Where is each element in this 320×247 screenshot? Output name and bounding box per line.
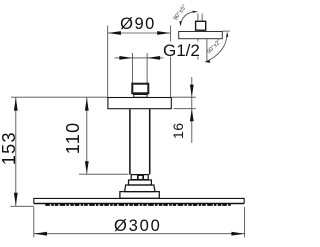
detail: flange plate — [179, 32, 223, 39]
dim 153 top arrow — [14, 98, 18, 111]
shower arm pipe — [129, 109, 131, 174]
dim Ø300 right arrow — [231, 232, 244, 236]
supply pipe stub lines — [131, 53, 133, 84]
detail: connection nut — [196, 21, 206, 30]
dim 16 vertical line — [191, 77, 193, 143]
dim G1/2 right arrow — [147, 56, 160, 60]
nut neck — [134, 95, 147, 98]
hex nut middle facet — [138, 175, 143, 179]
detail: flange top extension line — [222, 30, 229, 32]
shower head plate — [34, 198, 244, 203]
connection nut — [132, 84, 148, 94]
dim Ø300 right extension line — [244, 207, 246, 238]
ceiling line left segment — [11, 96, 108, 98]
detail: arc 90±5 lower arrowhead — [179, 21, 181, 26]
detail: arc 90±5 right arrowhead — [193, 11, 199, 13]
shower head plate bottom edge — [34, 203, 244, 205]
dim Ø90 left arrow — [108, 31, 121, 35]
dim 153 line — [15, 98, 17, 206]
cone section — [125, 185, 155, 192]
flange bottom extension line — [174, 108, 196, 110]
dim Ø90 line — [108, 32, 171, 34]
dim 110 line — [86, 98, 88, 174]
dim 16 lower arrow — [190, 109, 194, 122]
detail: pipe below flange — [197, 39, 199, 60]
svg-text:16: 16 — [170, 122, 186, 139]
ceiling line right segment — [172, 96, 196, 98]
dim Ø90 right extension line — [170, 26, 172, 98]
dim G1/2 left arrow — [119, 56, 132, 60]
detail: angle arc 90±2 — [206, 34, 228, 62]
detail: angle arc 90±5 — [180, 12, 193, 26]
dim 16 upper arrow — [190, 85, 194, 98]
svg-text:110: 110 — [63, 122, 83, 155]
plate bottom extension line — [11, 205, 34, 207]
hex nut at arm end — [131, 175, 148, 180]
detail: arc 90±2 lower arrowhead — [205, 60, 211, 63]
svg-text:Ø300: Ø300 — [114, 217, 162, 235]
wall flange escutcheon — [108, 98, 171, 109]
dim 153 bottom arrow — [14, 193, 18, 206]
dim Ø300 line — [34, 233, 245, 235]
mount base — [120, 192, 159, 199]
dim G1/2 line — [115, 57, 164, 59]
dim Ø90 left extension line — [107, 26, 109, 98]
collar ring — [129, 180, 152, 185]
dim Ø300 left arrow — [34, 232, 47, 236]
pipe end extension line — [79, 173, 129, 175]
dim 110 top arrow — [85, 98, 89, 111]
svg-text:G1/2: G1/2 — [163, 41, 200, 60]
dim Ø90 right arrow — [157, 31, 170, 35]
svg-text:153: 153 — [0, 131, 19, 165]
detail: arc 90±2 upper arrowhead — [226, 32, 228, 37]
G1/2 label white mask — [164, 42, 202, 57]
nozzle band — [45, 204, 231, 206]
svg-text:Ø90: Ø90 — [120, 15, 156, 33]
dim Ø300 left extension line — [33, 207, 35, 238]
hex nut facet lines — [137, 175, 139, 180]
dim 110 bottom arrow — [85, 161, 89, 174]
detail: supply stub lines — [197, 14, 199, 21]
